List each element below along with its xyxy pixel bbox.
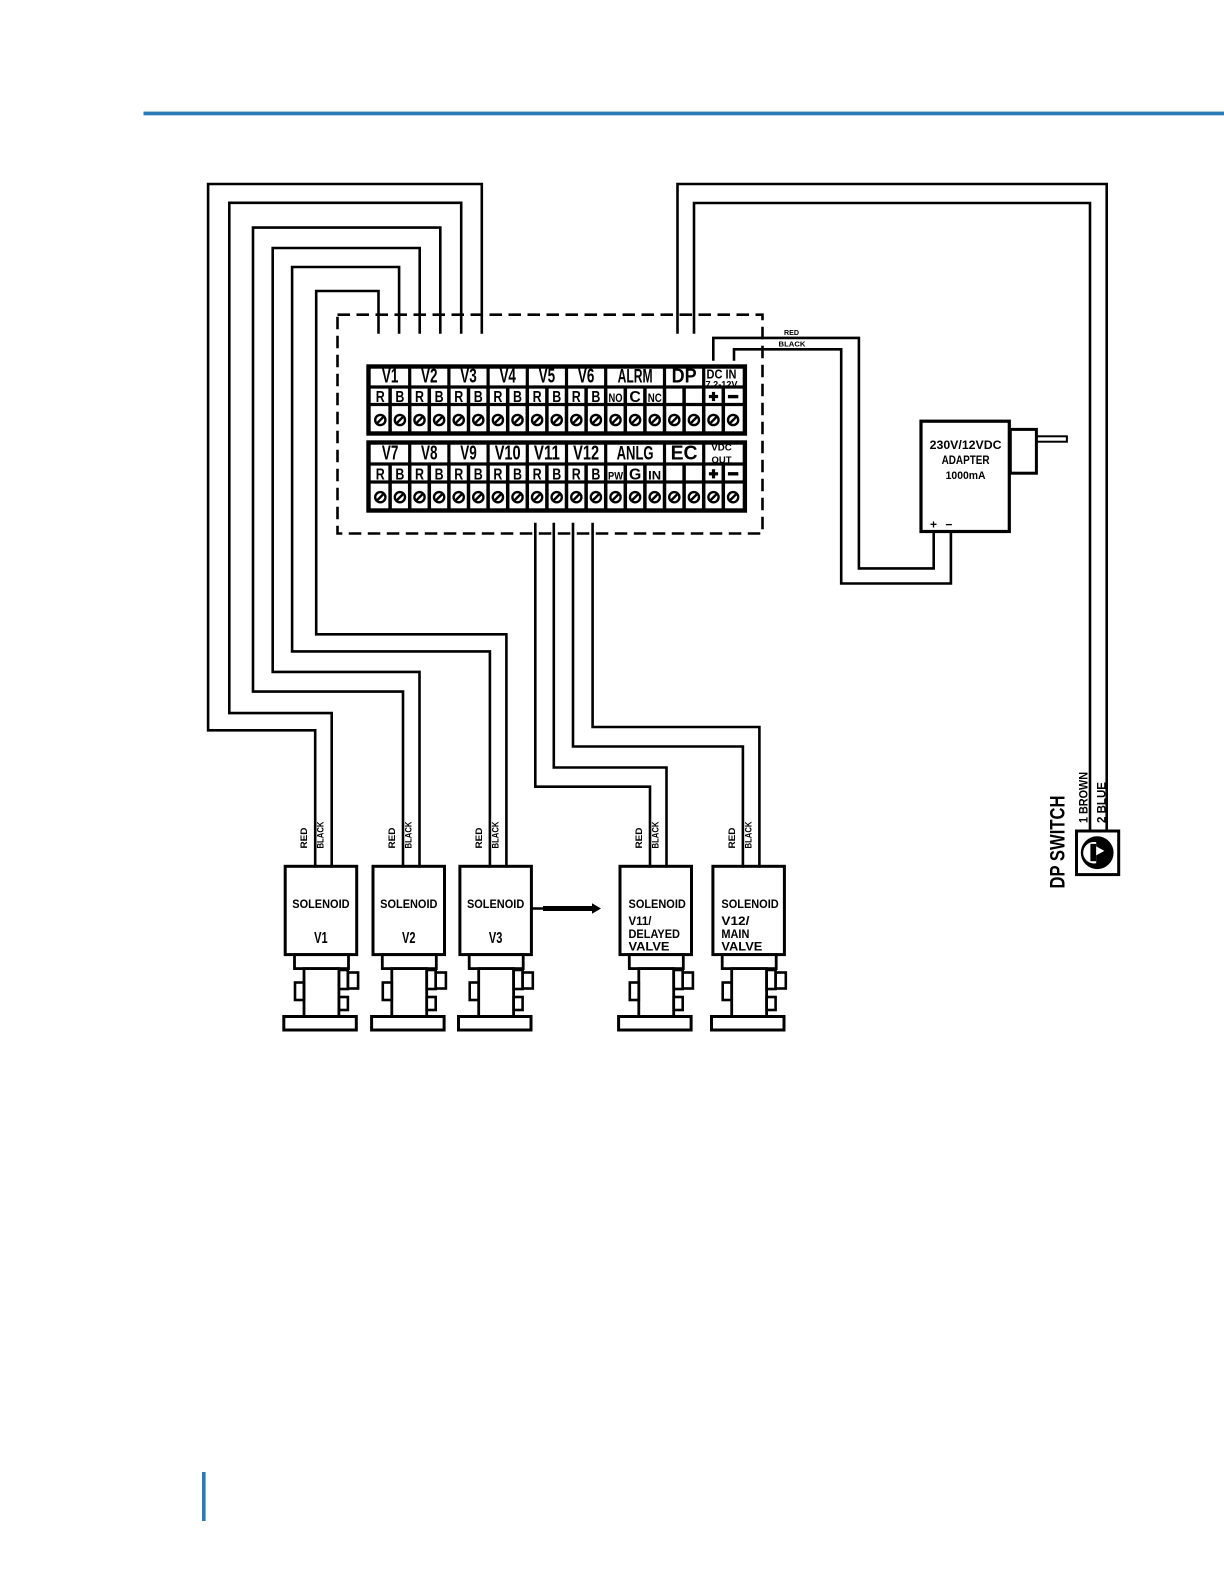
label 2 BLUE	[1094, 782, 1108, 823]
svg-text:V1: V1	[382, 366, 399, 388]
svg-text:B: B	[474, 467, 483, 484]
svg-text:2 BLUE: 2 BLUE	[1094, 782, 1108, 823]
svg-text:R: R	[376, 467, 385, 484]
svg-text:V6: V6	[578, 366, 595, 388]
svg-text:R: R	[415, 389, 424, 406]
svg-text:B: B	[513, 389, 522, 406]
svg-text:RED: RED	[784, 328, 800, 337]
arrow (V3 to V11/delayed valve)	[531, 903, 601, 913]
adapter plug body	[1010, 429, 1036, 473]
svg-text:B: B	[474, 389, 483, 406]
wire solenoid V1 BLACK to terminal V3-R	[229, 203, 461, 867]
svg-text:OUT: OUT	[712, 455, 732, 466]
svg-text:V1: V1	[314, 930, 328, 947]
svg-text:V9: V9	[460, 443, 477, 465]
svg-text:1000mA: 1000mA	[946, 470, 986, 482]
svg-text:+: +	[930, 518, 937, 532]
power adapter PS1 230V/12VDC 1000mA	[921, 421, 1009, 531]
label 1 BROWN	[1076, 772, 1090, 823]
svg-text:RED: RED	[727, 827, 737, 849]
svg-text:V2: V2	[421, 366, 438, 388]
svg-text:SOLENOID: SOLENOID	[629, 899, 686, 911]
svg-text:VALVE: VALVE	[629, 942, 670, 954]
svg-text:SOLENOID: SOLENOID	[721, 899, 778, 911]
label BLACK (V12 lead)	[743, 821, 753, 848]
svg-text:R: R	[454, 467, 463, 484]
svg-text:R: R	[493, 467, 502, 484]
svg-text:V8: V8	[421, 443, 438, 465]
svg-text:R: R	[415, 467, 424, 484]
solenoid V2	[372, 866, 446, 1030]
svg-text:SOLENOID: SOLENOID	[380, 899, 437, 911]
svg-text:B: B	[552, 389, 561, 406]
svg-text:NC: NC	[648, 391, 662, 405]
label RED (V11 lead)	[634, 827, 644, 849]
label RED (V12 lead)	[727, 827, 737, 849]
svg-text:RED: RED	[634, 827, 644, 849]
label DP SWITCH	[1047, 796, 1070, 889]
svg-text:BLACK: BLACK	[316, 821, 326, 848]
label RED (V3 lead)	[474, 827, 484, 849]
solenoid V12 (main valve)	[712, 866, 786, 1030]
svg-text:EC: EC	[671, 443, 698, 465]
svg-text:B: B	[435, 467, 444, 484]
svg-text:V3: V3	[489, 930, 503, 947]
svg-text:B: B	[395, 389, 404, 406]
svg-text:−: −	[945, 518, 952, 532]
wire terminal V12-B to solenoid V12 BLACK	[593, 524, 760, 866]
svg-text:B: B	[591, 467, 600, 484]
svg-text:B: B	[395, 467, 404, 484]
label RED (V2 lead)	[387, 827, 397, 849]
svg-text:7.2-12V: 7.2-12V	[706, 379, 739, 390]
wire DC IN + to adapter + (RED)	[713, 338, 933, 569]
svg-text:B: B	[552, 467, 561, 484]
label BLACK (V11 lead)	[651, 821, 661, 848]
wire solenoid V1 RED to terminal V3-B	[208, 184, 482, 866]
label RED (adapter lead)	[784, 328, 800, 337]
svg-text:B: B	[513, 467, 522, 484]
wire DC IN - to adapter - (BLACK)	[734, 349, 951, 583]
wire terminal V11-B to solenoid V11 BLACK	[554, 524, 667, 866]
adapter plug prong	[1037, 436, 1067, 441]
svg-text:R: R	[572, 389, 581, 406]
wire solenoid V2 RED to terminal V2-B	[253, 228, 440, 867]
svg-text:RED: RED	[299, 827, 309, 849]
page footer tick	[202, 1472, 206, 1521]
svg-text:R: R	[533, 389, 542, 406]
svg-text:V12: V12	[573, 443, 599, 465]
svg-text:BLACK: BLACK	[404, 821, 414, 848]
terminal block TB2 (V7-V12 / ANLG / EC / VDC OUT)	[367, 443, 747, 511]
svg-text:B: B	[591, 389, 600, 406]
svg-text:RED: RED	[474, 827, 484, 849]
svg-text:ALRM: ALRM	[618, 367, 653, 388]
svg-text:B: B	[435, 389, 444, 406]
label BLACK (adapter lead)	[779, 340, 807, 349]
svg-text:DELAYED: DELAYED	[629, 929, 681, 941]
svg-text:V7: V7	[382, 443, 399, 465]
wire terminal DP-1 to DP switch pin 1	[678, 184, 1107, 831]
label BLACK (V1 lead)	[316, 821, 326, 848]
solenoid V3	[459, 866, 533, 1030]
label RED (V1 lead)	[299, 827, 309, 849]
DP switch S1	[1077, 831, 1119, 875]
svg-text:ADAPTER: ADAPTER	[942, 455, 991, 467]
wire solenoid V2 BLACK to terminal V2-R	[273, 248, 420, 866]
svg-text:V2: V2	[402, 930, 416, 947]
svg-text:R: R	[454, 389, 463, 406]
svg-text:V12/: V12/	[721, 916, 750, 928]
svg-text:BLACK: BLACK	[743, 821, 753, 848]
wire terminal DP-2 to DP switch pin 2	[694, 203, 1090, 831]
svg-text:V3: V3	[460, 366, 477, 388]
svg-text:NO: NO	[609, 391, 623, 405]
svg-text:PW: PW	[608, 471, 624, 483]
svg-text:V5: V5	[539, 366, 556, 388]
svg-text:DP SWITCH: DP SWITCH	[1047, 796, 1070, 889]
svg-text:ANLG: ANLG	[617, 444, 654, 465]
svg-text:V4: V4	[499, 366, 516, 388]
label BLACK (V3 lead)	[490, 821, 500, 848]
svg-text:V11/: V11/	[629, 916, 653, 928]
svg-text:G: G	[629, 467, 641, 484]
svg-text:RED: RED	[387, 827, 397, 849]
svg-text:230V/12VDC: 230V/12VDC	[930, 438, 1002, 452]
svg-text:1 BROWN: 1 BROWN	[1076, 772, 1090, 823]
svg-text:BLACK: BLACK	[490, 821, 500, 848]
svg-text:VALVE: VALVE	[721, 942, 762, 954]
label BLACK (V2 lead)	[404, 821, 414, 848]
svg-text:BLACK: BLACK	[651, 821, 661, 848]
svg-text:VDC: VDC	[711, 443, 732, 454]
svg-text:SOLENOID: SOLENOID	[292, 899, 349, 911]
svg-text:BLACK: BLACK	[779, 340, 807, 349]
terminal block TB1 (V1-V6 / ALRM / DP / DC IN)	[367, 366, 747, 434]
wire solenoid V3 RED to terminal V1-B	[292, 267, 490, 866]
wire terminal V12-R to solenoid V12 RED	[573, 524, 743, 866]
svg-text:R: R	[376, 389, 385, 406]
svg-text:C: C	[629, 389, 640, 406]
solenoid V1	[284, 866, 358, 1030]
svg-text:R: R	[533, 467, 542, 484]
page header rule	[144, 112, 1224, 116]
controller enclosure (dashed outline)	[338, 315, 763, 534]
wire terminal V11-R to solenoid V11 RED	[535, 524, 650, 866]
svg-text:SOLENOID: SOLENOID	[467, 899, 524, 911]
svg-text:R: R	[493, 389, 502, 406]
solenoid V11 (delayed valve)	[619, 866, 693, 1030]
svg-text:IN: IN	[648, 469, 661, 483]
svg-text:V10: V10	[495, 443, 521, 465]
svg-text:DP: DP	[672, 366, 697, 388]
wire solenoid V3 BLACK to terminal V1-R	[316, 291, 506, 866]
svg-text:V11: V11	[534, 443, 560, 465]
svg-text:MAIN: MAIN	[721, 929, 749, 941]
svg-text:R: R	[572, 467, 581, 484]
